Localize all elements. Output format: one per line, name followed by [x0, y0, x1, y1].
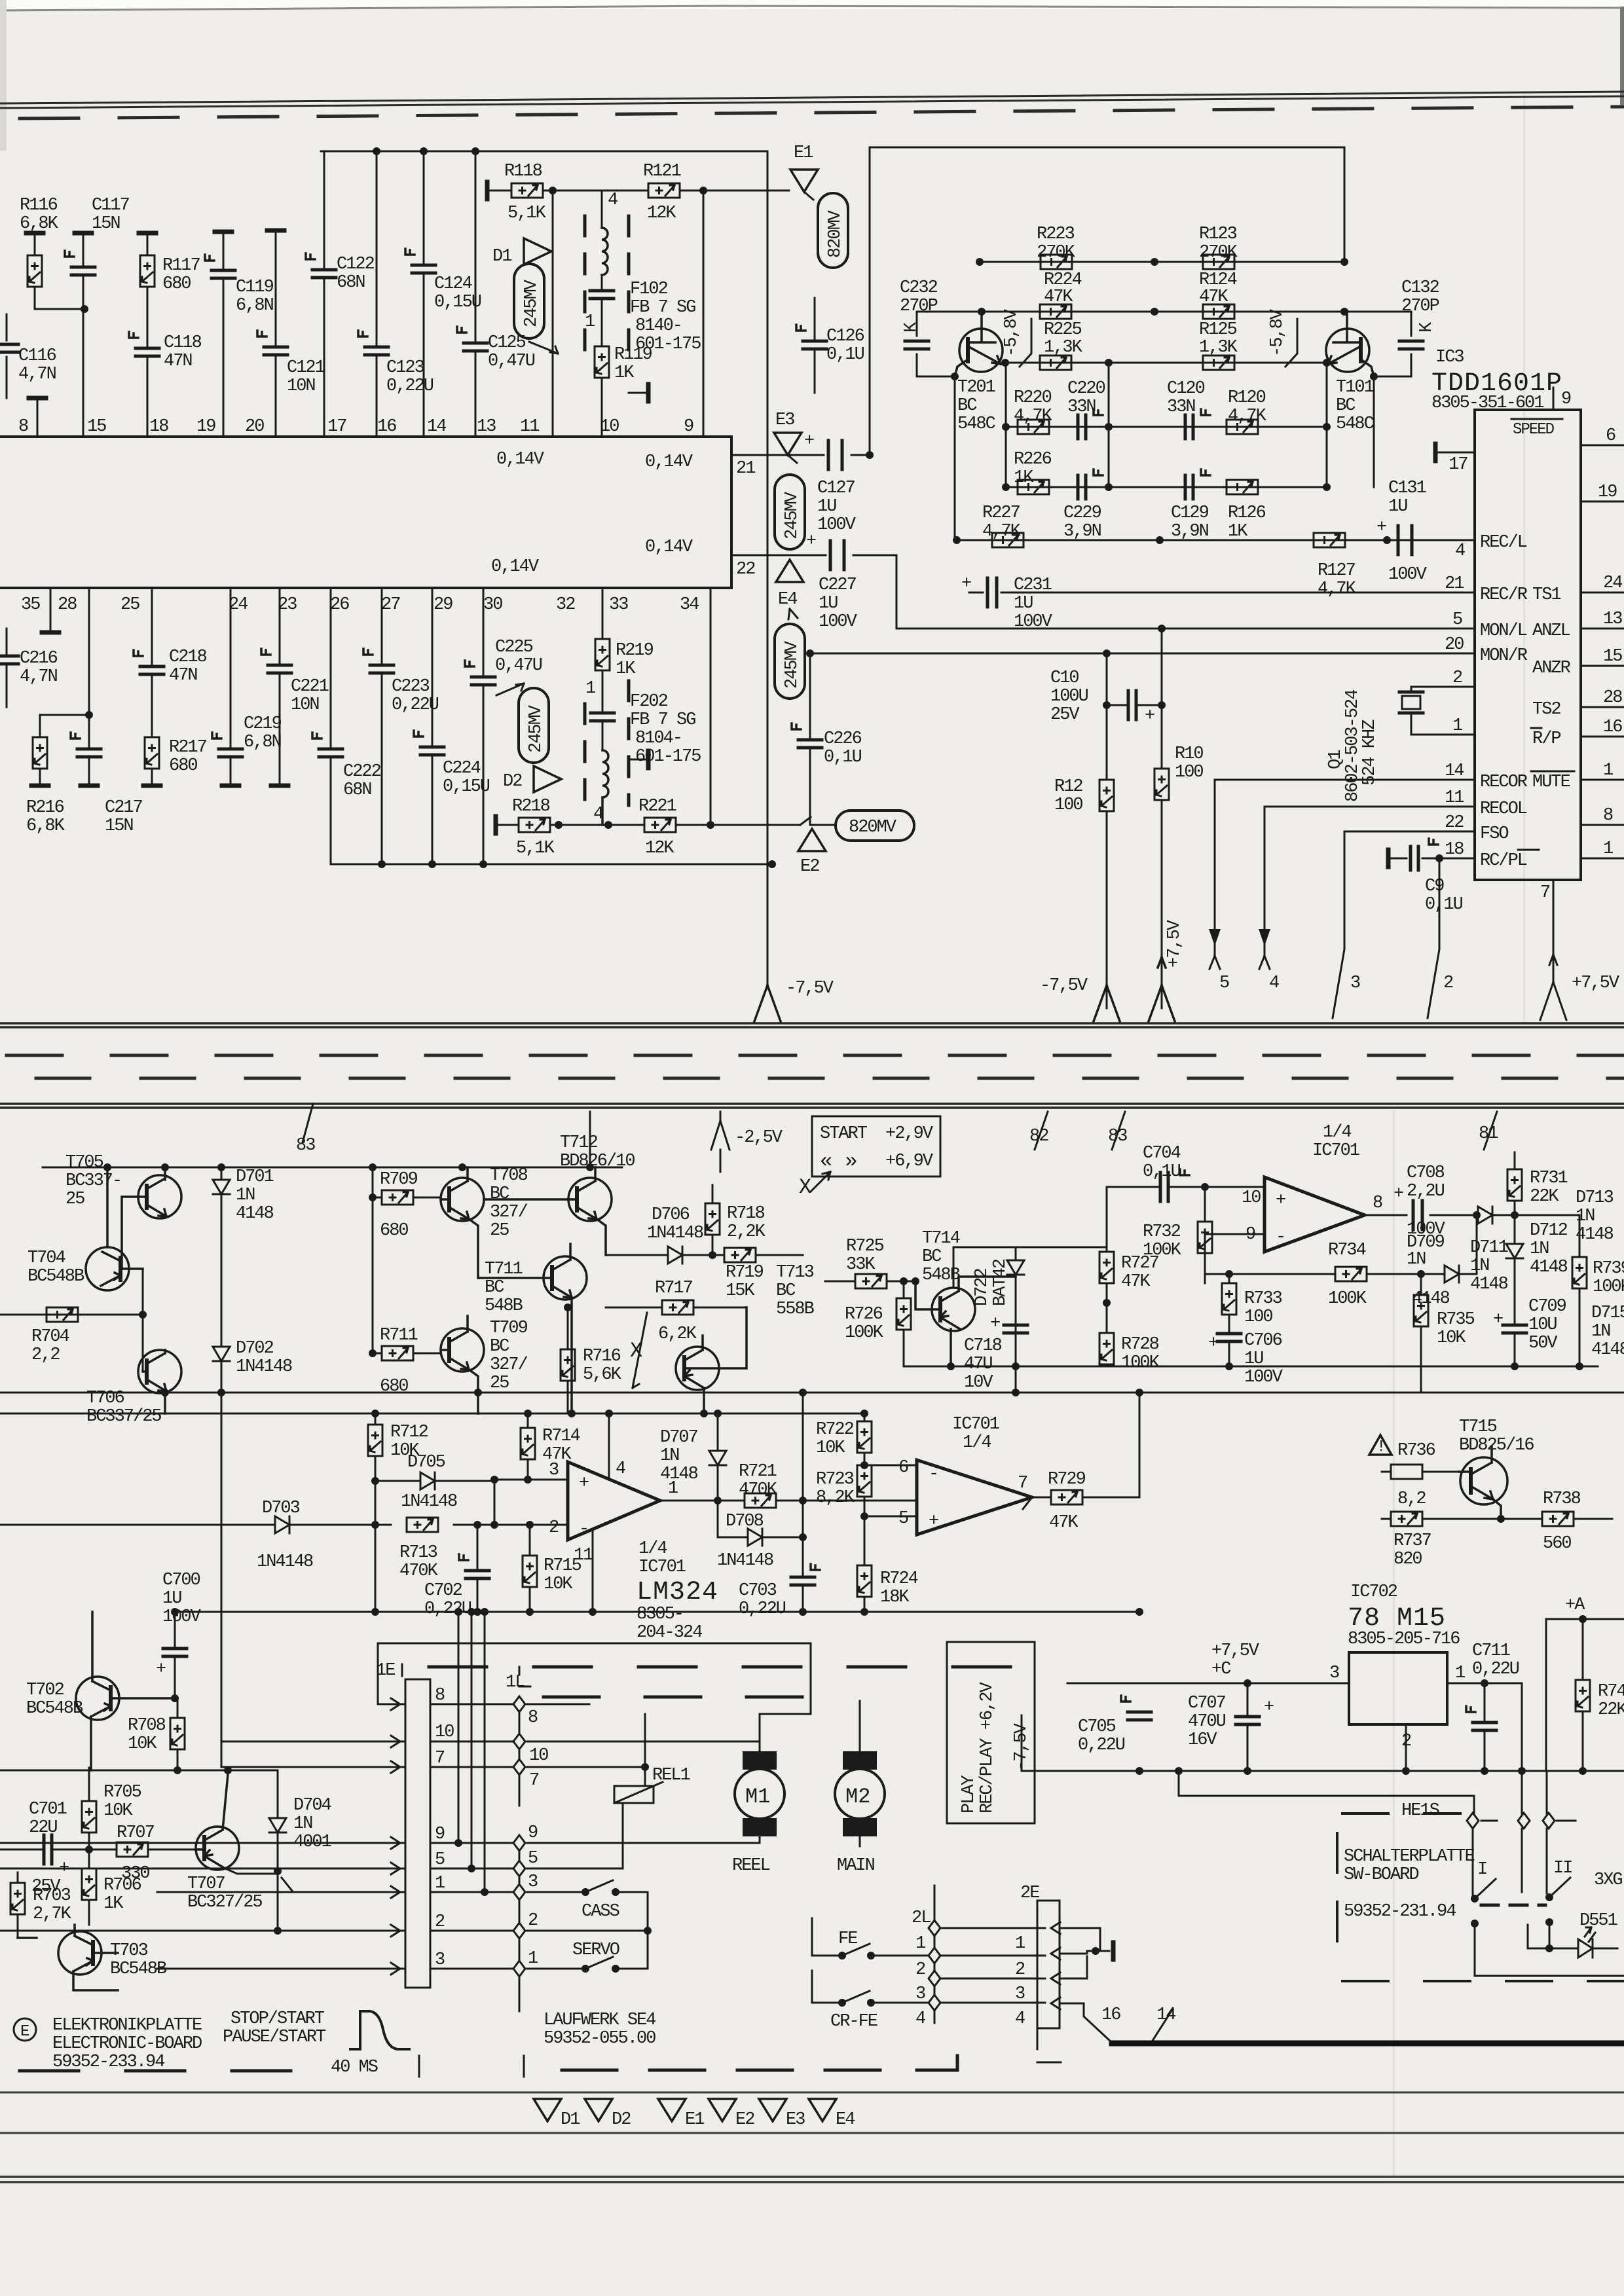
svg-text:R705: R705	[103, 1783, 141, 1802]
bottom thin line 1	[0, 2092, 1624, 2094]
svg-text:M1: M1	[745, 1785, 770, 1809]
slant to 3	[1333, 831, 1344, 1018]
pin14 RECOR row	[1215, 779, 1475, 781]
svg-text:8,2K: 8,2K	[816, 1488, 855, 1508]
svg-text:59352-055.00: 59352-055.00	[544, 2029, 655, 2049]
svg-text:R718: R718	[727, 1204, 765, 1224]
svg-text:R10: R10	[1175, 744, 1203, 764]
svg-text:D2: D2	[612, 2110, 631, 2130]
svg-text:680: 680	[169, 756, 197, 776]
resistor R220	[1018, 420, 1049, 434]
svg-text:MUTE: MUTE	[1532, 773, 1570, 792]
svg-text:0,1U: 0,1U	[1143, 1162, 1181, 1182]
svg-text:R/P: R/P	[1532, 729, 1560, 749]
svg-text:470K: 470K	[399, 1561, 439, 1581]
svg-text:F102: F102	[630, 280, 668, 299]
svg-text:548B: 548B	[485, 1296, 523, 1316]
resistor R225	[1040, 355, 1071, 370]
svg-text:C216: C216	[20, 649, 58, 668]
pin 6 stub right	[1581, 445, 1624, 446]
svg-text:R721: R721	[739, 1462, 777, 1482]
pin21 row / capacitor C127	[731, 454, 870, 456]
terminal pin8	[29, 397, 46, 399]
bottom double rule	[0, 2177, 1624, 2182]
wire emitter columns	[1006, 363, 1327, 487]
diode D711	[1477, 1214, 1515, 1216]
svg-text:E3: E3	[786, 2110, 805, 2130]
svg-text:D701: D701	[236, 1167, 274, 1187]
svg-text:BAT42: BAT42	[991, 1259, 1010, 1306]
svg-text:R732: R732	[1143, 1222, 1181, 1242]
heavy black line	[1112, 2041, 1624, 2047]
triangle E2	[709, 2099, 736, 2121]
svg-text:2,2: 2,2	[31, 1345, 60, 1365]
diode D704	[277, 1770, 279, 1874]
svg-text:1: 1	[435, 1874, 445, 1893]
wire top bus	[321, 151, 767, 153]
svg-text:1U: 1U	[1014, 594, 1033, 613]
svg-text:25: 25	[490, 1221, 509, 1241]
slant 81	[1484, 1112, 1497, 1150]
capacitor C117	[75, 232, 92, 234]
svg-text:1L: 1L	[506, 1673, 525, 1692]
capacitor C121	[267, 230, 284, 231]
svg-text:21: 21	[1445, 574, 1464, 594]
wire pin11 vertical	[552, 191, 554, 437]
wire T712 collector up	[589, 1112, 591, 1167]
svg-text:4,7N: 4,7N	[20, 667, 58, 687]
filter F202 side terminal	[629, 759, 647, 761]
svg-text:25: 25	[120, 595, 139, 615]
svg-text:BC327/25: BC327/25	[187, 1893, 262, 1912]
resistor R711 row	[373, 1353, 441, 1355]
capacitor C700	[174, 1612, 176, 1698]
resistor R709 row	[373, 1197, 441, 1199]
resistor R731	[1514, 1152, 1516, 1215]
svg-text:R737: R737	[1393, 1531, 1431, 1551]
svg-text:C701: C701	[29, 1800, 67, 1819]
svg-text:C119: C119	[236, 278, 274, 297]
pin 19 stub right	[1581, 501, 1624, 503]
svg-text:E3: E3	[775, 410, 794, 430]
svg-text:R731: R731	[1530, 1169, 1568, 1188]
transistor T714	[915, 1277, 1016, 1366]
svg-text:0,14V: 0,14V	[491, 557, 540, 577]
svg-text:4148: 4148	[1591, 1340, 1624, 1360]
svg-text:16: 16	[1101, 2005, 1120, 2025]
svg-text:83: 83	[1108, 1127, 1127, 1146]
transistor T101	[1326, 313, 1374, 376]
svg-text:C117: C117	[92, 196, 130, 215]
svg-text:+7,5V: +7,5V	[1572, 974, 1620, 993]
arrow to 4	[1259, 807, 1270, 969]
svg-text:R123: R123	[1199, 225, 1237, 244]
1E pin rows with arrows	[0, 1704, 405, 1969]
svg-text:5: 5	[435, 1850, 445, 1870]
transistor T705	[122, 1167, 181, 1269]
svg-text:4: 4	[616, 1459, 625, 1479]
svg-text:0,14V: 0,14V	[645, 538, 693, 557]
svg-text:6,8K: 6,8K	[20, 214, 59, 234]
svg-text:33N: 33N	[1167, 397, 1195, 417]
svg-text:5,1K: 5,1K	[507, 204, 547, 223]
svg-text:R703: R703	[33, 1886, 71, 1906]
diode D709	[1421, 1215, 1477, 1274]
resistor R224	[1040, 304, 1071, 319]
diode D701	[221, 1167, 223, 1346]
capacitor C709	[1514, 1307, 1516, 1366]
capacitor C225	[483, 588, 485, 864]
svg-text:3: 3	[435, 1950, 445, 1970]
svg-text:TS1: TS1	[1532, 585, 1560, 605]
IC702 ground pin	[1405, 1724, 1407, 1771]
svg-text:3: 3	[528, 1872, 538, 1892]
capacitor C232	[917, 312, 955, 376]
svg-text:R738: R738	[1543, 1489, 1581, 1509]
pin21 REC/R row / capacitor C231	[969, 592, 1475, 594]
svg-text:R722: R722	[816, 1420, 854, 1440]
svg-text:4,7N: 4,7N	[18, 365, 56, 384]
svg-text:FE: FE	[838, 1929, 857, 1949]
resistor R227	[992, 533, 1024, 547]
svg-text:560: 560	[1543, 1534, 1571, 1554]
diode D722	[1015, 1247, 1017, 1366]
svg-text:C131: C131	[1388, 479, 1426, 498]
svg-text:2: 2	[1443, 974, 1453, 993]
svg-text:C705: C705	[1078, 1717, 1116, 1737]
svg-text:C711: C711	[1472, 1641, 1510, 1661]
svg-text:+7,5V: +7,5V	[1165, 919, 1185, 968]
slant 83b	[1112, 1112, 1125, 1150]
svg-text:R12: R12	[1054, 777, 1082, 797]
svg-text:0,14V: 0,14V	[496, 450, 545, 469]
svg-text:D715: D715	[1591, 1303, 1624, 1323]
svg-text:3: 3	[1350, 974, 1360, 993]
svg-text:1K: 1K	[1014, 468, 1034, 488]
svg-text:1/4: 1/4	[638, 1539, 667, 1559]
svg-text:+7,5V: +7,5V	[1211, 1641, 1260, 1661]
resistor R704 row	[0, 1269, 143, 1372]
svg-text:T705: T705	[65, 1153, 103, 1173]
svg-text:!: !	[1376, 1438, 1384, 1456]
dashed frame bottom-left	[20, 2069, 314, 2073]
svg-text:0,22U: 0,22U	[424, 1599, 471, 1619]
connector E2	[800, 817, 811, 825]
svg-text:+: +	[1145, 706, 1154, 726]
svg-text:R719: R719	[726, 1263, 764, 1283]
svg-text:30: 30	[483, 595, 502, 615]
svg-text:R221: R221	[638, 797, 676, 816]
transistor T711	[478, 1244, 587, 1413]
resistor R125	[1203, 355, 1234, 370]
svg-text:D2: D2	[503, 772, 522, 792]
svg-text:R117: R117	[162, 256, 200, 276]
svg-text:12K: 12K	[645, 839, 674, 858]
svg-text:R734: R734	[1328, 1241, 1366, 1260]
svg-text:4148: 4148	[1470, 1275, 1508, 1294]
svg-text:D705: D705	[407, 1453, 445, 1472]
svg-text:+2,9V: +2,9V	[885, 1124, 934, 1144]
svg-text:REC/L: REC/L	[1480, 533, 1527, 553]
svg-text:C122: C122	[337, 255, 375, 274]
svg-text:18: 18	[1445, 840, 1464, 860]
diode D705 row	[375, 1481, 494, 1525]
svg-text:R226: R226	[1014, 450, 1052, 469]
svg-text:-7,5V: -7,5V	[1040, 976, 1088, 996]
svg-text:IC3: IC3	[1435, 348, 1464, 367]
transistor T703	[18, 1925, 118, 1990]
separator dashed row 1	[7, 1054, 1624, 1057]
svg-text:C704: C704	[1143, 1144, 1181, 1163]
resistor R726	[903, 1281, 905, 1366]
svg-text:R227: R227	[982, 503, 1020, 523]
svg-text:100: 100	[1054, 795, 1082, 815]
svg-text:1: 1	[915, 1934, 925, 1954]
svg-text:ELEKTRONIKPLATTE: ELEKTRONIKPLATTE	[52, 2016, 202, 2035]
svg-text:R717: R717	[655, 1279, 693, 1298]
svg-text:C231: C231	[1014, 575, 1052, 595]
resistor R728	[1106, 1303, 1108, 1366]
svg-text:10K: 10K	[544, 1575, 573, 1594]
svg-text:R704: R704	[31, 1327, 69, 1347]
svg-text:1U: 1U	[162, 1589, 181, 1609]
svg-text:FB 7 SG: FB 7 SG	[630, 710, 695, 730]
row R220/C220/C120/R120	[1006, 426, 1327, 428]
capacitor C126	[814, 298, 816, 393]
right stubs to page edge	[1581, 592, 1624, 858]
svg-text:14: 14	[1156, 2005, 1175, 2025]
svg-text:47K: 47K	[1121, 1272, 1151, 1292]
svg-text:D702: D702	[236, 1339, 274, 1358]
svg-text:C708: C708	[1407, 1163, 1445, 1183]
svg-text:22K: 22K	[1530, 1187, 1559, 1207]
transistor T706	[138, 1350, 181, 1413]
wire top link row	[378, 1643, 811, 1714]
svg-text:C10: C10	[1050, 668, 1079, 688]
svg-text:4,7K: 4,7K	[1318, 579, 1357, 599]
capacitor C119	[215, 231, 232, 232]
svg-text:47N: 47N	[164, 352, 192, 371]
svg-text:T712: T712	[560, 1133, 598, 1153]
svg-text:14: 14	[427, 417, 446, 437]
svg-text:C126: C126	[826, 327, 864, 346]
svg-text:R711: R711	[380, 1326, 418, 1345]
capacitor C219	[230, 588, 232, 783]
svg-text:820: 820	[1393, 1550, 1422, 1569]
svg-text:47K: 47K	[1049, 1513, 1079, 1533]
svg-text:1/4: 1/4	[1323, 1123, 1351, 1142]
svg-text:MON/R: MON/R	[1480, 646, 1528, 666]
svg-text:4: 4	[1269, 974, 1279, 993]
transistor T702	[76, 1612, 175, 1770]
svg-text:245MV: 245MV	[522, 279, 542, 327]
resistor R226	[1018, 480, 1049, 494]
svg-text:D704: D704	[293, 1796, 331, 1815]
svg-text:R217: R217	[169, 738, 207, 757]
capacitor C223	[381, 588, 383, 864]
op-amp U1a LM324	[568, 1462, 660, 1540]
resistor R10	[1154, 769, 1169, 800]
svg-text:100K: 100K	[1593, 1277, 1624, 1297]
svg-text:« »: « »	[820, 1149, 858, 1173]
capacitor C116	[6, 314, 8, 398]
svg-text:-5,8V: -5,8V	[1268, 308, 1287, 357]
wire R722 top rail to mid	[803, 1413, 864, 1414]
svg-text:2: 2	[528, 1911, 538, 1931]
oval 245MV (D2)	[519, 688, 549, 763]
capacitor C10	[1107, 629, 1162, 1008]
svg-text:0,14V: 0,14V	[645, 452, 693, 472]
svg-text:24: 24	[1603, 574, 1622, 593]
svg-text:4: 4	[608, 191, 618, 210]
capacitor C706	[1228, 1342, 1230, 1366]
dashed frame right of 2E	[1037, 2028, 1061, 2062]
resistor R714	[527, 1413, 529, 1480]
resistor R705	[88, 1768, 90, 1850]
svg-text:270K: 270K	[1199, 243, 1238, 263]
svg-text:R728: R728	[1121, 1335, 1159, 1355]
terminal pin35 stub	[50, 588, 52, 630]
svg-text:START: START	[820, 1124, 868, 1144]
svg-text:SCHALTERPLATTE: SCHALTERPLATTE	[1344, 1847, 1475, 1867]
svg-text:2,2K: 2,2K	[727, 1222, 766, 1242]
triangle D2	[585, 2099, 612, 2121]
switch SERVO	[581, 1965, 589, 1973]
svg-text:680: 680	[380, 1221, 408, 1241]
svg-text:BD825/16: BD825/16	[1459, 1436, 1534, 1455]
svg-text:SPEED: SPEED	[1513, 421, 1555, 439]
svg-text:R713: R713	[399, 1543, 437, 1563]
svg-text:+: +	[1276, 1191, 1285, 1211]
svg-text:MAIN: MAIN	[837, 1856, 875, 1876]
svg-text:R726: R726	[845, 1305, 883, 1324]
svg-text:327/: 327/	[490, 1355, 528, 1375]
svg-text:2,7K: 2,7K	[33, 1904, 72, 1924]
svg-text:25V: 25V	[1050, 705, 1080, 725]
capacitor C702	[477, 1525, 479, 1612]
capacitor C703	[802, 1501, 804, 1612]
slant 82	[1035, 1112, 1048, 1150]
transistor T713	[676, 1307, 747, 1413]
oval 820MV at E2	[836, 811, 914, 841]
svg-text:+6,9V: +6,9V	[885, 1152, 934, 1171]
svg-text:100: 100	[1244, 1307, 1272, 1327]
svg-text:100V: 100V	[817, 515, 857, 535]
svg-text:1N: 1N	[1576, 1207, 1595, 1226]
op-amp U2 (1/4 IC701 top)	[1264, 1177, 1365, 1252]
svg-text:D703: D703	[262, 1499, 300, 1518]
svg-text:1: 1	[1015, 1934, 1025, 1954]
svg-text:4148: 4148	[236, 1204, 274, 1224]
svg-text:0,22U: 0,22U	[739, 1599, 786, 1619]
svg-text:E1: E1	[685, 2110, 704, 2130]
svg-text:16: 16	[377, 417, 396, 437]
svg-text:3: 3	[915, 1984, 925, 2004]
transistor T709	[441, 1316, 484, 1413]
svg-text:1/4: 1/4	[963, 1433, 991, 1453]
svg-text:R218: R218	[512, 797, 550, 816]
resistor R219	[602, 588, 604, 681]
svg-text:100V: 100V	[1388, 565, 1428, 585]
svg-text:II: II	[1553, 1859, 1572, 1878]
row R227	[957, 539, 1475, 541]
resistor row R223/R123	[980, 261, 1344, 263]
resistor R117	[139, 232, 156, 234]
resistor R118 row	[487, 182, 488, 199]
svg-text:1K: 1K	[103, 1894, 124, 1914]
wire E1 row to C127 column	[869, 147, 871, 455]
svg-text:C703: C703	[739, 1581, 777, 1601]
svg-text:RC/PL: RC/PL	[1480, 851, 1527, 871]
dashed link between switches	[1481, 1904, 1545, 1907]
capacitor C216	[6, 629, 8, 707]
svg-text:8,2: 8,2	[1397, 1489, 1426, 1509]
svg-text:59352-231.94: 59352-231.94	[1344, 1902, 1456, 1922]
slant 83 through rules	[303, 1104, 313, 1142]
pin22 row / capacitor C227	[731, 555, 896, 629]
capacitor C122	[323, 151, 325, 437]
svg-text:10U: 10U	[1528, 1315, 1557, 1335]
svg-text:T201: T201	[957, 378, 995, 397]
svg-text:3,9N: 3,9N	[1171, 522, 1209, 541]
resistor R717 row	[606, 1307, 747, 1309]
svg-text:0,1U: 0,1U	[824, 748, 862, 767]
svg-text:11: 11	[1445, 788, 1464, 808]
svg-text:83: 83	[296, 1136, 315, 1156]
resistor R703	[17, 1872, 19, 1938]
svg-text:1: 1	[1455, 1664, 1465, 1683]
svg-text:17: 17	[327, 417, 346, 437]
diode D707	[717, 1413, 719, 1501]
wire feeds from bus to 1E rows	[458, 1612, 485, 1892]
svg-text:9: 9	[684, 417, 693, 437]
svg-text:245MV: 245MV	[783, 491, 802, 539]
svg-text:4148: 4148	[660, 1465, 698, 1484]
svg-text:10: 10	[529, 1746, 548, 1766]
wire IC702 input row	[1067, 1683, 1349, 1685]
svg-text:IC702: IC702	[1350, 1582, 1397, 1602]
resistor R715	[529, 1525, 531, 1612]
svg-text:601-175: 601-175	[635, 747, 701, 767]
svg-text:204-324: 204-324	[637, 1623, 702, 1643]
svg-text:6,8N: 6,8N	[244, 733, 282, 752]
svg-text:C219: C219	[244, 714, 282, 734]
svg-text:270P: 270P	[1401, 297, 1439, 316]
motor M2	[843, 1751, 877, 1770]
svg-text:REC/PLAY +6,2V: REC/PLAY +6,2V	[978, 1681, 997, 1813]
wire IC702 output row	[1447, 1683, 1522, 1813]
svg-text:1N: 1N	[660, 1446, 679, 1466]
svg-text:100K: 100K	[1143, 1241, 1182, 1260]
svg-text:T711: T711	[485, 1260, 523, 1279]
svg-text:C132: C132	[1401, 278, 1439, 298]
cap bottom bus	[331, 864, 772, 866]
row R226/C229/C129/R126	[1006, 486, 1327, 488]
wires 1L to right	[527, 1704, 760, 1969]
svg-text:100V: 100V	[819, 612, 858, 632]
IC3 box	[1475, 410, 1581, 880]
svg-text:BC: BC	[1336, 396, 1356, 416]
svg-text:4,7K: 4,7K	[1014, 407, 1053, 426]
svg-text:5,1K: 5,1K	[516, 839, 555, 858]
svg-text:34: 34	[680, 595, 699, 615]
svg-text:6: 6	[1606, 426, 1615, 446]
svg-text:17: 17	[1449, 455, 1467, 475]
svg-text:C225: C225	[495, 638, 533, 657]
svg-text:470K: 470K	[739, 1480, 778, 1500]
svg-text:R223: R223	[1037, 225, 1075, 244]
svg-text:21: 21	[736, 459, 755, 479]
